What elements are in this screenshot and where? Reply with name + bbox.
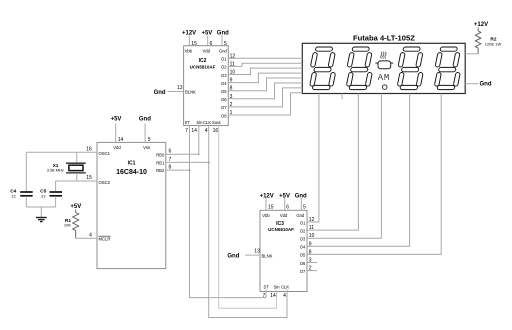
svg-text:+12V: +12V — [182, 30, 196, 36]
svg-text:Sin: Sin — [274, 285, 281, 290]
svg-text:120E 1W: 120E 1W — [485, 41, 502, 46]
svg-text:IC3: IC3 — [276, 221, 284, 227]
svg-text:O7: O7 — [300, 269, 306, 274]
svg-text:14: 14 — [118, 137, 124, 143]
svg-text:Gnd: Gnd — [139, 117, 151, 123]
svg-text:Vbb: Vbb — [185, 48, 193, 53]
svg-text:+5V: +5V — [201, 30, 212, 36]
svg-text:MCLR: MCLR — [99, 237, 111, 242]
svg-text:8: 8 — [309, 249, 312, 255]
svg-text:15: 15 — [86, 175, 92, 181]
svg-text:12: 12 — [309, 217, 315, 223]
svg-text:15: 15 — [191, 41, 197, 47]
svg-text:IC2: IC2 — [199, 58, 207, 64]
svg-text:7: 7 — [185, 128, 188, 134]
svg-text:Gnd: Gnd — [154, 90, 166, 96]
svg-text:4: 4 — [205, 128, 208, 134]
svg-text:O1: O1 — [300, 220, 306, 225]
svg-text:O4: O4 — [300, 245, 306, 250]
svg-text:BLNK: BLNK — [262, 253, 273, 258]
svg-text:13: 13 — [254, 248, 260, 254]
svg-text:Vbb: Vbb — [262, 213, 270, 218]
svg-text:16C84-10: 16C84-10 — [116, 169, 147, 176]
svg-text:O5: O5 — [300, 253, 306, 258]
svg-text:Gnd: Gnd — [295, 193, 307, 199]
svg-text:5: 5 — [303, 205, 306, 211]
svg-text:O5: O5 — [221, 89, 227, 94]
svg-text:IC1: IC1 — [128, 161, 136, 167]
svg-text:10: 10 — [309, 233, 315, 239]
svg-text:AM: AM — [378, 73, 390, 83]
svg-text:Vdd: Vdd — [280, 213, 288, 218]
svg-text:O4: O4 — [221, 81, 227, 86]
svg-text:12: 12 — [11, 193, 16, 198]
svg-text:14: 14 — [270, 293, 276, 299]
svg-text:RB1: RB1 — [156, 161, 165, 166]
svg-text:5: 5 — [148, 137, 151, 143]
svg-text:16: 16 — [213, 128, 219, 134]
svg-text:O8: O8 — [221, 113, 227, 118]
svg-text:O6: O6 — [300, 261, 306, 266]
svg-text:UCN5810AF: UCN5810AF — [268, 227, 294, 232]
svg-text:+5V: +5V — [111, 117, 122, 123]
svg-text:+5V: +5V — [279, 193, 290, 199]
svg-text:BLNK: BLNK — [185, 90, 196, 95]
svg-text:6: 6 — [286, 205, 289, 211]
svg-text:Sout: Sout — [212, 120, 221, 125]
svg-text:11: 11 — [309, 225, 314, 231]
svg-text:CLK: CLK — [281, 285, 289, 290]
svg-text:3: 3 — [309, 258, 312, 264]
svg-text:Gnd: Gnd — [227, 253, 239, 259]
svg-text:O2: O2 — [300, 228, 306, 233]
svg-text:4: 4 — [89, 233, 92, 239]
svg-text:2: 2 — [309, 266, 312, 272]
svg-text:OSC2: OSC2 — [99, 180, 111, 185]
svg-text:+12V: +12V — [260, 193, 274, 199]
svg-text:Gnd: Gnd — [480, 82, 492, 88]
svg-text:14: 14 — [191, 128, 197, 134]
svg-text:13: 13 — [177, 85, 183, 91]
svg-text:16: 16 — [86, 147, 92, 153]
svg-text:O2: O2 — [221, 65, 227, 70]
svg-text:OSC1: OSC1 — [99, 151, 111, 156]
svg-text:+5V: +5V — [70, 204, 81, 210]
svg-text:Gnd: Gnd — [296, 213, 305, 218]
svg-text:RB2: RB2 — [156, 168, 165, 173]
svg-text:Vdd: Vdd — [113, 145, 121, 150]
svg-text:CLK: CLK — [203, 120, 211, 125]
svg-text:ST: ST — [185, 120, 191, 125]
svg-text:+12V: +12V — [474, 22, 488, 28]
svg-text:Vdd: Vdd — [202, 48, 210, 53]
svg-text:4: 4 — [283, 293, 286, 299]
svg-text:ST: ST — [264, 285, 270, 290]
svg-text:5: 5 — [224, 41, 227, 47]
svg-text:10K: 10K — [64, 222, 71, 227]
svg-text:9: 9 — [309, 241, 312, 247]
svg-text:Gnd: Gnd — [219, 48, 228, 53]
svg-text:O3: O3 — [300, 237, 306, 242]
svg-text:Futaba 4-LT-105Z: Futaba 4-LT-105Z — [353, 33, 415, 42]
svg-text:15: 15 — [268, 205, 274, 211]
svg-text:RB0: RB0 — [156, 152, 165, 157]
svg-text:12: 12 — [41, 193, 46, 198]
svg-text:O7: O7 — [221, 105, 227, 110]
svg-text:UCN5810AF: UCN5810AF — [190, 64, 216, 69]
svg-text:3.58 MHz: 3.58 MHz — [47, 168, 64, 173]
svg-text:Vss: Vss — [143, 145, 150, 150]
svg-text:O3: O3 — [221, 73, 227, 78]
svg-text:6: 6 — [210, 41, 213, 47]
svg-text:Gnd: Gnd — [217, 30, 229, 36]
svg-text:O1: O1 — [221, 57, 227, 62]
svg-text:O6: O6 — [221, 97, 227, 102]
